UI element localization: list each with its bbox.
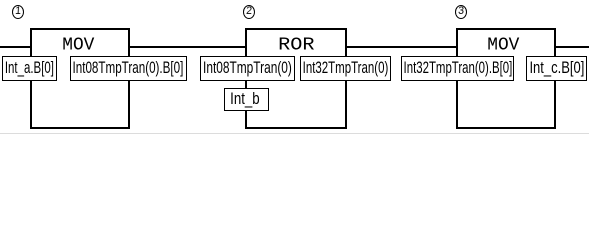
circled number 2 — [243, 5, 255, 19]
wire rung segment left rail to block 1 — [0, 46, 31, 48]
wire rung segment block 2 to block 3 — [346, 46, 457, 48]
operand box Int32TmpTran(0).B[0] — [401, 56, 514, 81]
operand box Int_b — [224, 88, 269, 111]
operand box Int_a.B[0] — [2, 56, 57, 81]
instruction block MOV (1) — [30, 28, 130, 129]
circled number 1 — [12, 5, 24, 19]
operand box Int_c.B[0] — [526, 56, 587, 81]
instruction block ROR (2) — [245, 28, 347, 129]
operand box Int08TmpTran(0) — [200, 56, 295, 81]
wire rung segment block 1 to block 2 — [129, 46, 246, 48]
instruction block MOV (3) — [456, 28, 556, 129]
operand box Int32TmpTran(0) — [300, 56, 391, 81]
wire rung segment block 3 to right rail — [555, 46, 589, 48]
faint separator line — [0, 133, 589, 134]
circled number 3 — [455, 5, 467, 19]
operand box Int08TmpTran(0).B[0] — [70, 56, 187, 81]
